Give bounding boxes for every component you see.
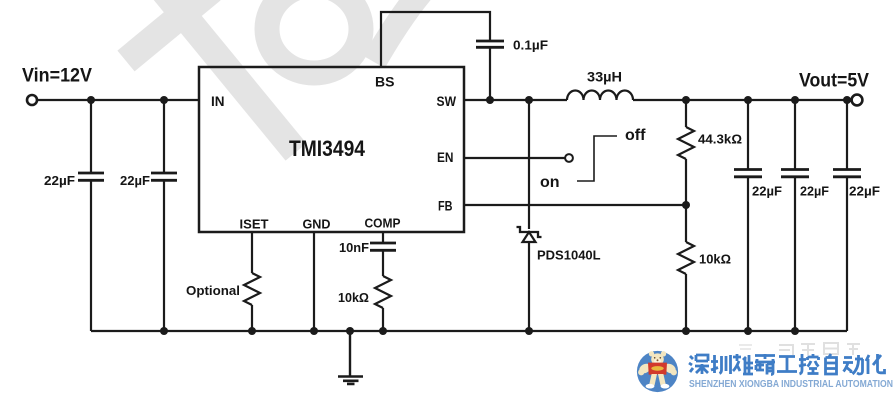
resistor R3 Optional lead top	[251, 232, 253, 273]
diode D1 triangle	[523, 232, 536, 242]
svg-text:33µH: 33µH	[587, 69, 622, 85]
svg-text:Vin=12V: Vin=12V	[22, 65, 92, 87]
svg-text:44.3kΩ: 44.3kΩ	[698, 132, 742, 147]
logo bear feet	[646, 384, 655, 389]
junction ground rail at D1	[525, 327, 533, 335]
capacitor C7 lead bottom	[382, 251, 384, 276]
logo bear head	[649, 351, 654, 356]
svg-text:10nF: 10nF	[339, 240, 369, 255]
logo bear torso red shirt	[648, 363, 667, 375]
capacitor C5 lead bottom	[794, 178, 796, 332]
svg-text:22µF: 22µF	[120, 173, 150, 188]
resistor R3 Optional lead bottom	[251, 305, 253, 331]
capacitor C2 22uF input lead top	[163, 100, 165, 172]
char kong	[799, 354, 819, 374]
switch off/on symbol	[577, 136, 617, 181]
junction ground rail at R2	[682, 327, 690, 335]
ground symbol stem	[349, 331, 351, 377]
resistor R3 Optional zigzag	[244, 273, 260, 305]
diode D1 PDS1040L schottky cathode bar	[517, 227, 542, 237]
junction SW node at D1	[525, 96, 533, 104]
capacitor C3 0.1uF plates	[476, 41, 504, 47]
char zi	[826, 354, 837, 374]
resistor R2 10k zigzag	[678, 242, 694, 274]
svg-text:22µF: 22µF	[849, 184, 880, 199]
char xiong	[733, 354, 753, 374]
wire ground rail bottom	[91, 330, 847, 332]
resistor R4 10k COMP zigzag	[375, 276, 391, 308]
wire inductor to Vout terminal	[633, 99, 852, 101]
char ba	[755, 354, 775, 375]
junction ground rail at GND pin	[310, 327, 318, 335]
capacitor C4 22uF output lead top	[747, 100, 749, 169]
svg-text:22µF: 22µF	[800, 184, 829, 199]
logo bear legs	[649, 374, 657, 386]
capacitor C1 22uF input lead top	[90, 100, 92, 172]
char shen	[689, 355, 709, 374]
logo bear arms	[638, 362, 653, 375]
capacitor C7 plates	[370, 243, 396, 250]
svg-text:SHENZHEN XIONGBA INDUSTRIAL AU: SHENZHEN XIONGBA INDUSTRIAL AUTOMATION	[689, 378, 893, 390]
capacitor C6 22uF output lead top	[846, 100, 848, 169]
ground symbol bars	[338, 377, 363, 384]
capacitor C5 plates	[781, 170, 809, 177]
EN open circle	[565, 154, 573, 162]
capacitor C2 plates	[151, 173, 177, 180]
char hua	[866, 354, 885, 374]
logo icon circle	[637, 351, 678, 392]
svg-text:22µF: 22µF	[752, 184, 782, 199]
junction SW node at C3	[486, 96, 494, 104]
char gong	[777, 357, 797, 372]
wire GND pin	[313, 232, 315, 331]
capacitor C6 lead bottom	[846, 178, 848, 332]
resistor R2 10k lead top	[685, 205, 687, 242]
svg-text:PDS1040L: PDS1040L	[537, 248, 601, 263]
svg-text:22µF: 22µF	[44, 173, 75, 188]
terminal Vout	[852, 95, 863, 106]
resistor R1 44.3k zigzag	[678, 127, 694, 159]
resistor R1 44.3k lead bottom	[685, 159, 687, 205]
svg-text:FB: FB	[438, 199, 453, 214]
junction Vout node at R1	[682, 96, 690, 104]
capacitor C4 lead bottom	[747, 178, 749, 332]
wire input rail	[37, 99, 199, 101]
inductor L1 33uH	[567, 91, 633, 101]
resistor R2 10k lead bottom	[685, 274, 687, 331]
wire SW to inductor	[464, 99, 567, 101]
capacitor C1 plates	[78, 173, 104, 180]
svg-text:TMI3494: TMI3494	[289, 136, 366, 161]
svg-text:Optional: Optional	[186, 283, 240, 298]
diode D1 lead bottom	[528, 242, 530, 331]
wire BS bootstrap	[381, 12, 490, 67]
wire EN	[464, 157, 565, 159]
svg-text:COMP: COMP	[365, 216, 401, 231]
svg-text:SW: SW	[437, 94, 457, 109]
resistor R1 44.3k lead top	[685, 100, 687, 127]
svg-text:off: off	[625, 127, 646, 144]
capacitor C5 22uF output lead top	[794, 100, 796, 169]
junction Vout node at C6	[843, 96, 851, 104]
junction ground rail at R3	[248, 327, 256, 335]
svg-text:0.1µF: 0.1µF	[513, 38, 548, 53]
svg-text:EN: EN	[437, 150, 454, 165]
junction input node at C1	[87, 96, 95, 104]
capacitor C4 plates	[734, 170, 762, 177]
terminal Vin	[27, 95, 37, 105]
junction ground rail at C2	[160, 327, 168, 335]
junction Vout node at C4	[744, 96, 752, 104]
capacitor C2 lead bottom	[163, 181, 165, 331]
junction ground rail at R4	[379, 327, 387, 335]
char dong	[843, 355, 863, 374]
capacitor C1 lead bottom	[90, 181, 92, 331]
wire FB	[464, 204, 686, 206]
logo chinese characters (vector strokes)	[689, 354, 885, 375]
junction input node at C2	[160, 96, 168, 104]
junction ground rail at C5	[791, 327, 799, 335]
resistor R4 10k lead bottom	[382, 308, 384, 331]
capacitor C7 10nF lead top	[382, 232, 384, 242]
svg-text:BS: BS	[375, 75, 395, 90]
svg-text:10kΩ: 10kΩ	[699, 252, 731, 267]
junction Vout node at C5	[791, 96, 799, 104]
watermark faint text bottom-right	[739, 343, 860, 355]
IC U1 TMI3494 box	[199, 67, 464, 232]
wire SW node to diode	[528, 100, 530, 229]
svg-text:on: on	[540, 174, 560, 191]
svg-text:ISET: ISET	[240, 217, 269, 232]
junction ground rail at C4	[744, 327, 752, 335]
svg-text:GND: GND	[303, 217, 331, 232]
svg-text:Vout=5V: Vout=5V	[799, 70, 869, 92]
capacitor C6 plates	[833, 170, 861, 177]
svg-text:10kΩ: 10kΩ	[338, 290, 369, 305]
watermark diagonal stroke upper-left	[126, 0, 421, 152]
svg-text:IN: IN	[211, 94, 225, 109]
junction ground rail at ground symbol	[346, 327, 354, 335]
capacitor C3 lead bottom	[489, 48, 491, 100]
junction FB node	[682, 201, 690, 209]
char zhen	[711, 355, 731, 374]
